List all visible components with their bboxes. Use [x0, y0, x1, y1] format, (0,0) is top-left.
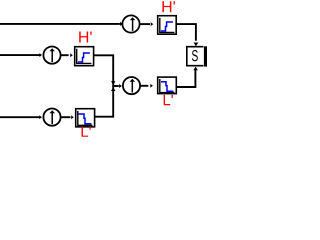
upsampler U4 circle body [123, 77, 140, 94]
S box thick right edge [204, 46, 207, 66]
upsampler U2 (circle, up-arrow) [43, 47, 60, 64]
wire F2 right, down, across to F3 output (merge column) [94, 55, 113, 116]
label L' for F3 [82, 126, 91, 136]
wire U3 to F3 [61, 116, 70, 118]
F1 highpass response curve [161, 22, 173, 31]
wire F4 right, up to S bottom [177, 70, 195, 87]
arrowhead up into S [193, 67, 198, 71]
F2 box outline [75, 47, 94, 66]
F3 box outline [76, 109, 95, 127]
label L' for F4 [164, 95, 173, 105]
arrowhead into F4 [150, 84, 153, 88]
circuit: 2-level wavelet synthesis filter bank diagram [0, 0, 207, 139]
upsampler U1 (circle, up-arrow) [122, 15, 139, 32]
arrowhead into F3 [71, 115, 74, 119]
wire U4 to F4 [141, 85, 149, 87]
wire input row2 [0, 54, 40, 56]
filter F4 lowpass block [158, 77, 177, 94]
wire U1 to F1 [140, 23, 150, 25]
F4 lowpass response curve [161, 82, 173, 91]
arrowhead into upsampler U3 [39, 115, 42, 119]
arrowhead into F1 [151, 22, 154, 26]
F2 icon axes [77, 49, 92, 64]
filter F1 highpass block [158, 16, 177, 35]
arrowhead down into junction [111, 81, 115, 85]
up-arrow glyph of U3 [51, 113, 53, 124]
up-arrow glyph of U1 [132, 20, 134, 31]
arrowhead into upsampler U1 [120, 22, 123, 26]
upsampler U4 (circle, up-arrow) [123, 77, 140, 94]
letter S [192, 50, 198, 61]
arrowhead into upsampler U2 [39, 53, 42, 57]
F3 icon axes [78, 111, 93, 125]
label H' for F2 [79, 31, 91, 42]
wire U2 to F2 [61, 54, 68, 56]
F4 icon axes [160, 79, 175, 93]
arrowhead down into S [194, 43, 199, 47]
F3 lowpass response curve [78, 114, 91, 124]
up-arrow glyph of U2 [51, 51, 53, 62]
F1 box outline [158, 16, 177, 35]
upsampler U1 circle body [122, 15, 139, 32]
F1 icon axes [160, 18, 175, 33]
filter F3 lowpass block [76, 109, 95, 127]
upsampler U2 circle body [43, 47, 60, 64]
label H' for F1 [162, 1, 174, 12]
arrowhead up into junction [111, 87, 115, 91]
arrowhead into F2 [70, 53, 73, 57]
wire input row1 [0, 23, 120, 25]
upsampler U3 (circle, up-arrow) [43, 109, 60, 126]
upsampler U3 circle body [43, 109, 60, 126]
filter F2 highpass block [75, 47, 94, 66]
F4 box outline [158, 77, 177, 94]
node junction stub to U4 [113, 85, 119, 87]
arrowhead into upsampler U4 [119, 84, 122, 88]
S box outline [187, 47, 204, 66]
wire F1 to S (right, down) [177, 24, 196, 41]
up-arrow glyph of U4 [131, 81, 133, 92]
wire input row3 [0, 116, 40, 118]
summation block S [187, 46, 207, 66]
F2 highpass response curve [78, 53, 90, 62]
